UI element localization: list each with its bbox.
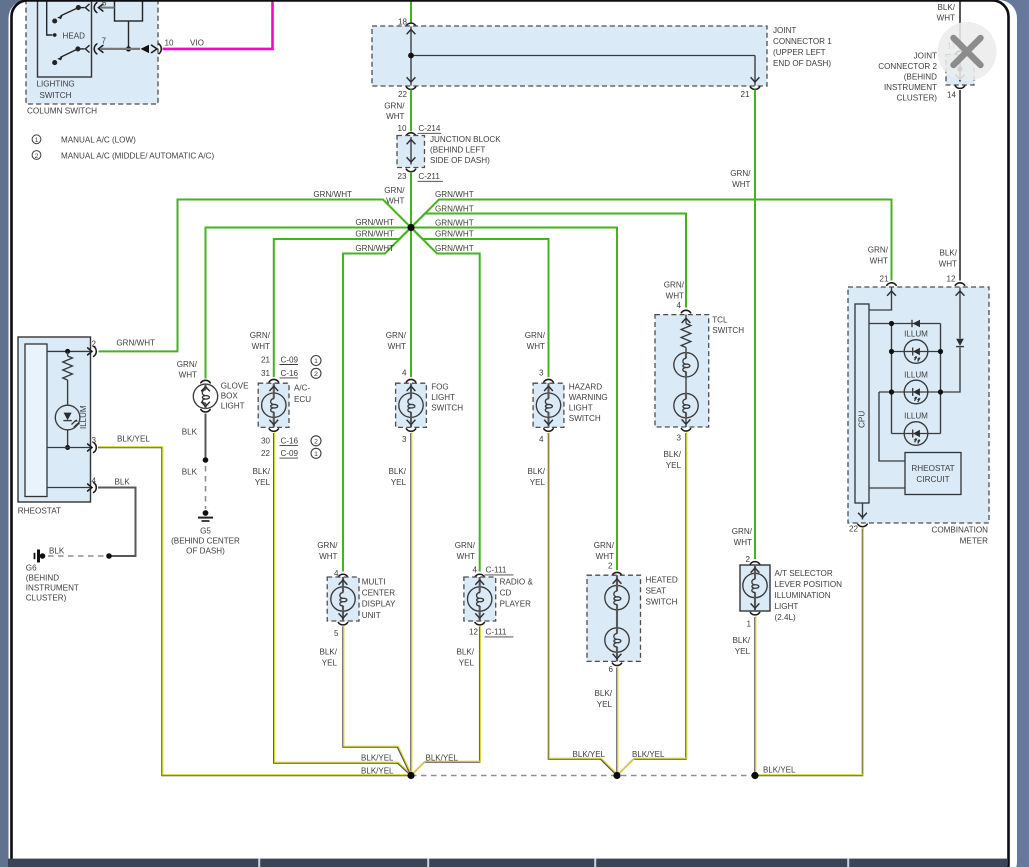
joint connector 2 box bbox=[878, 52, 974, 103]
node junction pin7 bbox=[126, 46, 131, 51]
svg-text:22: 22 bbox=[398, 90, 408, 99]
svg-text:GRN/WHT: GRN/WHT bbox=[355, 218, 394, 227]
resistor bbox=[67, 351, 69, 356]
bottom toolbar bbox=[8, 859, 1007, 867]
svg-text:HEAD: HEAD bbox=[63, 32, 86, 41]
svg-text:BLK/: BLK/ bbox=[937, 3, 955, 12]
wire GRN/WHT into JC1 pin 18 bbox=[410, 1, 412, 23]
pin 5 bbox=[94, 3, 103, 13]
switch heated seat bbox=[587, 541, 678, 709]
svg-text:OF DASH): OF DASH) bbox=[186, 547, 225, 556]
svg-text:C-16: C-16 bbox=[281, 437, 299, 446]
wire BLK/YEL A/T to node C bbox=[754, 617, 756, 776]
diode D1 left bbox=[913, 320, 920, 328]
switch TCL bbox=[655, 281, 744, 471]
lighting switch box bbox=[38, 0, 92, 77]
svg-text:3: 3 bbox=[539, 368, 544, 377]
svg-text:CD: CD bbox=[500, 589, 512, 598]
svg-text:(2.4L): (2.4L) bbox=[775, 613, 796, 622]
svg-text:GRN/: GRN/ bbox=[664, 281, 685, 290]
svg-text:BLK/: BLK/ bbox=[252, 467, 270, 476]
svg-text:JUNCTION BLOCK: JUNCTION BLOCK bbox=[430, 135, 501, 144]
svg-text:GRN/WHT: GRN/WHT bbox=[435, 229, 474, 238]
terminal marker pin 10 bbox=[141, 45, 150, 53]
svg-text:END OF DASH): END OF DASH) bbox=[773, 59, 831, 68]
svg-text:30: 30 bbox=[261, 437, 271, 446]
lamp bbox=[743, 573, 767, 598]
svg-text:2: 2 bbox=[35, 153, 39, 160]
wire BLK/YEL multi display to node A bbox=[343, 627, 411, 776]
svg-text:BLK/: BLK/ bbox=[939, 249, 957, 258]
svg-text:21: 21 bbox=[261, 355, 271, 364]
svg-text:GRN/WHT: GRN/WHT bbox=[313, 190, 352, 199]
svg-text:6: 6 bbox=[608, 665, 613, 674]
svg-text:WHT: WHT bbox=[527, 342, 545, 351]
svg-text:RADIO &: RADIO & bbox=[500, 578, 534, 587]
svg-text:GRN/: GRN/ bbox=[250, 331, 271, 340]
svg-text:10: 10 bbox=[165, 39, 175, 48]
svg-text:YEL: YEL bbox=[255, 478, 271, 487]
svg-text:CLUSTER): CLUSTER) bbox=[897, 94, 938, 103]
wire hub to glove box light bbox=[206, 228, 412, 379]
wire BLK/WHT top to JC2 bbox=[959, 1, 961, 50]
svg-text:GRN/: GRN/ bbox=[525, 331, 546, 340]
svg-text:23: 23 bbox=[397, 172, 407, 181]
wire BLK/YEL radio to node A bbox=[411, 627, 480, 776]
wire BLK/YEL heated seat to node B bbox=[616, 668, 618, 776]
svg-text:SIDE OF DASH): SIDE OF DASH) bbox=[430, 156, 490, 165]
svg-text:WARNING: WARNING bbox=[569, 393, 608, 402]
svg-text:21: 21 bbox=[879, 275, 889, 284]
lamp A/T selector illumination bbox=[732, 527, 842, 656]
svg-text:RHEOSTAT: RHEOSTAT bbox=[18, 507, 61, 516]
svg-text:GRN/: GRN/ bbox=[594, 541, 615, 550]
junction block bbox=[397, 136, 425, 168]
svg-text:GRN/WHT: GRN/WHT bbox=[435, 190, 474, 199]
wire BLK dashed to G5 bbox=[205, 466, 207, 509]
svg-text:(BEHIND CENTER: (BEHIND CENTER bbox=[171, 537, 240, 546]
wire BLK/YEL TCL to node B bbox=[617, 433, 686, 776]
svg-text:LIGHT: LIGHT bbox=[431, 393, 455, 402]
svg-text:C-111: C-111 bbox=[486, 628, 507, 637]
svg-text:GRN/: GRN/ bbox=[384, 186, 405, 195]
svg-text:MANUAL A/C (MIDDLE/ AUTOMATIC: MANUAL A/C (MIDDLE/ AUTOMATIC A/C) bbox=[61, 151, 215, 160]
svg-text:C-111: C-111 bbox=[486, 566, 507, 575]
node A bbox=[407, 772, 414, 779]
svg-text:SWITCH: SWITCH bbox=[646, 598, 678, 607]
svg-text:BLK/YEL: BLK/YEL bbox=[426, 754, 459, 763]
svg-text:GRN/: GRN/ bbox=[317, 541, 338, 550]
svg-text:LEVER POSITION: LEVER POSITION bbox=[775, 580, 843, 589]
pin 3 connector bbox=[47, 447, 91, 449]
svg-text:BLK/YEL: BLK/YEL bbox=[361, 767, 394, 776]
svg-text:WHT: WHT bbox=[388, 342, 406, 351]
connector pin 21 meter bbox=[887, 283, 896, 285]
svg-text:(BEHIND: (BEHIND bbox=[26, 574, 59, 583]
lamp L2 bbox=[605, 627, 629, 652]
svg-text:CONNECTOR 2: CONNECTOR 2 bbox=[878, 62, 937, 71]
svg-text:HAZARD: HAZARD bbox=[569, 383, 602, 392]
ground G6 bbox=[35, 550, 46, 563]
svg-text:2: 2 bbox=[314, 439, 318, 446]
svg-text:22: 22 bbox=[261, 449, 271, 458]
svg-text:FOG: FOG bbox=[431, 383, 449, 392]
wire hub to A/C-ECU bbox=[274, 228, 411, 378]
lamp bbox=[331, 586, 355, 611]
svg-text:CIRCUIT: CIRCUIT bbox=[916, 475, 949, 484]
svg-text:4: 4 bbox=[676, 301, 681, 310]
svg-text:BOX: BOX bbox=[221, 392, 239, 401]
switch S1 HEAD upper bbox=[53, 4, 90, 23]
svg-text:CPU: CPU bbox=[858, 411, 867, 428]
svg-text:SEAT: SEAT bbox=[646, 587, 667, 596]
svg-text:BLK/YEL: BLK/YEL bbox=[573, 750, 606, 759]
wire CPU to pin 22 bbox=[862, 503, 864, 520]
svg-text:WHT: WHT bbox=[179, 371, 197, 380]
svg-text:4: 4 bbox=[472, 566, 477, 575]
legend note 2 bbox=[32, 151, 214, 161]
svg-text:YEL: YEL bbox=[735, 647, 751, 656]
svg-text:WHT: WHT bbox=[319, 552, 337, 561]
svg-text:BLK: BLK bbox=[182, 468, 198, 477]
rheostat circuit block bbox=[905, 453, 961, 495]
wire hub to heated seat switch bbox=[411, 228, 617, 571]
wire hub to TCL switch bbox=[411, 214, 686, 308]
svg-text:BLK/YEL: BLK/YEL bbox=[361, 754, 394, 763]
column switch box bbox=[26, 0, 158, 104]
connector/ecu U1 A/C-ECU bbox=[250, 331, 321, 487]
svg-text:1: 1 bbox=[314, 358, 318, 365]
svg-text:GRN/: GRN/ bbox=[455, 541, 476, 550]
svg-text:WHT: WHT bbox=[666, 292, 684, 301]
svg-text:WHT: WHT bbox=[252, 342, 270, 351]
svg-text:RHEOSTAT: RHEOSTAT bbox=[911, 464, 954, 473]
svg-text:5: 5 bbox=[334, 629, 339, 638]
wire BLK/YEL meter pin22 to node C bbox=[755, 529, 863, 776]
svg-text:GRN/: GRN/ bbox=[868, 246, 889, 255]
svg-text:CENTER: CENTER bbox=[362, 589, 395, 598]
CPU block bbox=[855, 304, 869, 503]
svg-text:BLK/YEL: BLK/YEL bbox=[117, 435, 150, 444]
svg-text:BLK/: BLK/ bbox=[388, 467, 406, 476]
lamp bbox=[399, 393, 423, 418]
pin 7 bbox=[94, 44, 103, 54]
wire hub to radio bbox=[411, 228, 480, 572]
switch S2 lower bbox=[53, 45, 90, 64]
svg-text:GRN/: GRN/ bbox=[386, 331, 407, 340]
svg-text:MANUAL A/C (LOW): MANUAL A/C (LOW) bbox=[61, 136, 136, 145]
svg-text:3: 3 bbox=[91, 436, 96, 445]
svg-text:YEL: YEL bbox=[597, 700, 613, 709]
wire BLK/YEL A/C-ECU to bottom bus bbox=[274, 433, 411, 776]
wire BLK/YEL fog switch to node A bbox=[410, 433, 412, 776]
close button bbox=[938, 22, 997, 81]
lamp glove box light bbox=[177, 360, 249, 412]
lamp L1 bbox=[674, 352, 698, 377]
wire BLK dashed to G6 bbox=[46, 555, 104, 557]
resistor bbox=[681, 324, 691, 348]
svg-text:YEL: YEL bbox=[459, 659, 475, 668]
svg-text:SWITCH: SWITCH bbox=[712, 326, 744, 335]
svg-text:COMBINATION: COMBINATION bbox=[931, 526, 988, 535]
wire to rheostat circuit bbox=[879, 392, 905, 461]
svg-text:YEL: YEL bbox=[666, 461, 682, 470]
svg-text:BLK/YEL: BLK/YEL bbox=[632, 750, 665, 759]
svg-text:BLK: BLK bbox=[115, 478, 131, 487]
svg-text:BLK/: BLK/ bbox=[663, 450, 681, 459]
svg-text:WHT: WHT bbox=[734, 538, 752, 547]
wire VIO bbox=[163, 1, 273, 49]
ground G5 bbox=[198, 510, 213, 521]
svg-text:3: 3 bbox=[676, 434, 681, 443]
svg-text:YEL: YEL bbox=[530, 478, 546, 487]
node G6 junction bbox=[106, 553, 112, 559]
svg-text:WHT: WHT bbox=[732, 180, 750, 189]
svg-text:1: 1 bbox=[35, 137, 39, 144]
svg-text:ECU: ECU bbox=[294, 395, 311, 404]
svg-text:SWITCH: SWITCH bbox=[431, 404, 463, 413]
svg-text:GRN/: GRN/ bbox=[177, 360, 198, 369]
svg-text:ILLUM: ILLUM bbox=[904, 330, 928, 339]
switch hazard warning light bbox=[525, 331, 608, 487]
svg-text:ILLUM: ILLUM bbox=[79, 405, 88, 429]
rheostat R1 bbox=[18, 337, 155, 516]
connector pin 12 meter bbox=[955, 283, 964, 285]
svg-text:BLK: BLK bbox=[182, 428, 198, 437]
wire GRN/WHT JC1 pin21 to A/T lamp bbox=[754, 90, 756, 560]
diode row with D1 bbox=[869, 323, 941, 325]
svg-text:GRN/: GRN/ bbox=[730, 169, 751, 178]
JC1 internal bus bbox=[407, 27, 760, 86]
svg-text:BLK: BLK bbox=[49, 547, 65, 556]
svg-text:4: 4 bbox=[402, 368, 407, 377]
lamp L2 bbox=[674, 393, 698, 418]
joint connector 1 box bbox=[372, 26, 767, 86]
svg-text:DISPLAY: DISPLAY bbox=[362, 600, 396, 609]
wire junction block to hub bbox=[410, 172, 412, 228]
svg-text:BLK/YEL: BLK/YEL bbox=[763, 766, 796, 775]
pin 2 connector bbox=[88, 346, 97, 356]
svg-text:1: 1 bbox=[314, 451, 318, 458]
svg-text:WHT: WHT bbox=[596, 552, 614, 561]
wire pin22 to junction block bbox=[410, 90, 412, 132]
wire hub to hazard switch bbox=[411, 228, 549, 378]
svg-text:2: 2 bbox=[608, 562, 613, 571]
svg-text:LIGHT: LIGHT bbox=[569, 404, 593, 413]
svg-text:10: 10 bbox=[397, 124, 407, 133]
svg-text:METER: METER bbox=[960, 537, 988, 546]
svg-text:G6: G6 bbox=[26, 564, 37, 573]
svg-text:4: 4 bbox=[91, 477, 96, 486]
svg-text:GRN/WHT: GRN/WHT bbox=[116, 339, 155, 348]
wire dimmer box to pin7 bbox=[128, 21, 130, 49]
wire BLK glove box bbox=[205, 414, 207, 461]
diode D2 down bbox=[956, 339, 964, 346]
svg-text:LIGHT: LIGHT bbox=[775, 602, 799, 611]
svg-text:ILLUMINATION: ILLUMINATION bbox=[775, 591, 831, 600]
connector pin 22 bbox=[406, 87, 415, 89]
switch fog light bbox=[386, 331, 464, 487]
dimmer sub box bbox=[115, 0, 143, 21]
node B bbox=[613, 772, 620, 779]
svg-text:4: 4 bbox=[539, 435, 544, 444]
svg-text:JOINT: JOINT bbox=[914, 52, 937, 61]
svg-text:C-16: C-16 bbox=[281, 369, 299, 378]
svg-text:GRN/WHT: GRN/WHT bbox=[435, 218, 474, 227]
combination meter box bbox=[848, 287, 989, 523]
svg-text:WHT: WHT bbox=[457, 552, 475, 561]
wire pin12 branch bbox=[941, 288, 961, 393]
wire CPU to rheostat circuit bbox=[869, 487, 905, 489]
lamp bbox=[536, 393, 560, 418]
svg-text:14: 14 bbox=[947, 91, 957, 100]
node hub junction bbox=[407, 224, 414, 231]
wire hub to fog light switch bbox=[410, 228, 412, 378]
legend note 1 bbox=[32, 135, 136, 145]
svg-text:YEL: YEL bbox=[391, 478, 407, 487]
svg-text:WHT: WHT bbox=[937, 14, 955, 23]
svg-text:2: 2 bbox=[314, 371, 318, 378]
svg-text:A/T SELECTOR: A/T SELECTOR bbox=[775, 569, 833, 578]
connector pin 18 bbox=[406, 23, 415, 25]
ILLUM lamp (LED) bbox=[55, 405, 80, 430]
right bus bbox=[940, 324, 942, 434]
svg-text:YEL: YEL bbox=[322, 659, 338, 668]
svg-text:LIGHTING: LIGHTING bbox=[37, 80, 75, 89]
svg-text:TCL: TCL bbox=[712, 316, 728, 325]
svg-text:CONNECTOR 1: CONNECTOR 1 bbox=[773, 37, 832, 46]
wire pin21 into CPU bbox=[869, 288, 892, 311]
wire dashed ground bus bbox=[411, 775, 755, 777]
svg-text:GRN/WHT: GRN/WHT bbox=[355, 229, 394, 238]
svg-text:MULTI: MULTI bbox=[362, 578, 386, 587]
wire BLK/WHT JC2 to combination meter pin12 bbox=[959, 90, 961, 281]
connector pin 21 bbox=[750, 87, 759, 89]
svg-text:PLAYER: PLAYER bbox=[500, 600, 531, 609]
svg-text:INSTRUMENT: INSTRUMENT bbox=[26, 584, 79, 593]
svg-text:JOINT: JOINT bbox=[773, 26, 796, 35]
svg-text:C-09: C-09 bbox=[281, 355, 299, 364]
svg-text:A/C-: A/C- bbox=[294, 384, 310, 393]
lamp bbox=[262, 393, 286, 418]
svg-text:12: 12 bbox=[469, 628, 479, 637]
radio and cd player bbox=[455, 541, 534, 668]
svg-text:ILLUM: ILLUM bbox=[904, 412, 928, 421]
svg-text:SWITCH: SWITCH bbox=[40, 91, 72, 100]
svg-text:C-09: C-09 bbox=[281, 449, 299, 458]
svg-text:(UPPER LEFT: (UPPER LEFT bbox=[773, 48, 826, 57]
svg-text:BLK/: BLK/ bbox=[594, 689, 612, 698]
connector C-214 bbox=[406, 133, 415, 135]
wire BLK/YEL hazard to node B bbox=[549, 433, 618, 776]
svg-text:GRN/: GRN/ bbox=[732, 527, 753, 536]
connector pin 22 meter bbox=[858, 524, 867, 526]
wire hub to rheostat pin2 bbox=[99, 200, 412, 352]
node C bbox=[751, 772, 758, 779]
svg-text:CLUSTER): CLUSTER) bbox=[26, 594, 67, 603]
display multi center display unit bbox=[317, 541, 396, 668]
svg-text:VIO: VIO bbox=[190, 39, 204, 48]
svg-text:ILLUM: ILLUM bbox=[904, 371, 928, 380]
svg-text:HEATED: HEATED bbox=[646, 576, 678, 585]
svg-text:INSTRUMENT: INSTRUMENT bbox=[884, 83, 937, 92]
svg-text:3: 3 bbox=[402, 435, 407, 444]
wire hub to multi center display bbox=[343, 228, 411, 572]
svg-text:UNIT: UNIT bbox=[362, 611, 381, 620]
svg-text:31: 31 bbox=[261, 369, 271, 378]
svg-text:GRN/: GRN/ bbox=[384, 102, 405, 111]
svg-text:(BEHIND LEFT: (BEHIND LEFT bbox=[430, 146, 485, 155]
svg-text:12: 12 bbox=[946, 275, 956, 284]
svg-text:GLOVE: GLOVE bbox=[221, 382, 249, 391]
svg-text:WHT: WHT bbox=[870, 257, 888, 266]
node bbox=[203, 457, 209, 463]
svg-text:BLK/: BLK/ bbox=[732, 636, 750, 645]
svg-text:7: 7 bbox=[102, 37, 107, 46]
wire hub to combination meter pin21 bbox=[411, 200, 892, 281]
svg-text:2: 2 bbox=[745, 555, 750, 564]
svg-text:21: 21 bbox=[740, 90, 750, 99]
connector C-211 bbox=[406, 169, 415, 171]
lamp bbox=[468, 586, 492, 611]
svg-text:SWITCH: SWITCH bbox=[569, 414, 601, 423]
svg-text:BLK/: BLK/ bbox=[456, 648, 474, 657]
svg-text:GRN/WHT: GRN/WHT bbox=[435, 244, 474, 253]
wire HEAD terminal bbox=[47, 0, 53, 35]
svg-text:BLK/: BLK/ bbox=[319, 648, 337, 657]
svg-text:1: 1 bbox=[746, 620, 751, 629]
left bus bbox=[891, 324, 893, 434]
svg-text:GRN/WHT: GRN/WHT bbox=[355, 244, 394, 253]
pin 4 connector bbox=[47, 487, 91, 489]
svg-text:G5: G5 bbox=[200, 527, 211, 536]
svg-text:WHT: WHT bbox=[939, 260, 957, 269]
svg-text:GRN/WHT: GRN/WHT bbox=[435, 204, 474, 213]
svg-text:(BEHIND: (BEHIND bbox=[904, 73, 937, 82]
svg-text:C-211: C-211 bbox=[418, 172, 440, 181]
svg-text:C-214: C-214 bbox=[418, 124, 441, 133]
svg-text:22: 22 bbox=[849, 525, 859, 534]
svg-text:BLK/: BLK/ bbox=[527, 467, 545, 476]
svg-text:WHT: WHT bbox=[386, 112, 404, 121]
svg-text:LIGHT: LIGHT bbox=[221, 402, 245, 411]
lamp L1 bbox=[605, 585, 629, 610]
svg-text:COLUMN SWITCH: COLUMN SWITCH bbox=[27, 107, 97, 116]
